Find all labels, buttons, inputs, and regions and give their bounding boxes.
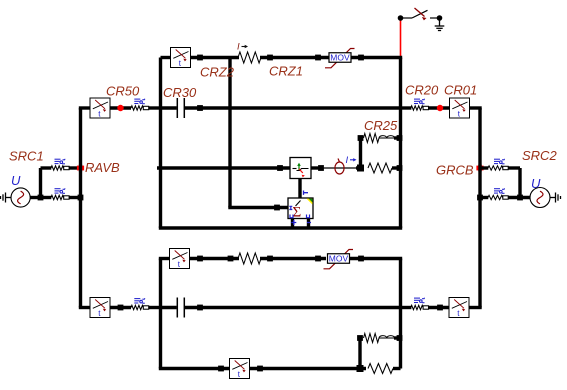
wire: lower capacitor to lower-right bus xyxy=(185,306,401,309)
wire: MOV2 to lower-right bus corner xyxy=(350,257,403,260)
node after lower capacitor xyxy=(197,305,203,311)
breaker CR50 xyxy=(90,98,110,119)
lower RAVB series RLC xyxy=(55,188,66,193)
blue current label I at probe xyxy=(346,155,357,166)
svg-text:U: U xyxy=(11,173,21,188)
node after MOV xyxy=(358,55,364,61)
svg-text:MOV: MOV xyxy=(329,254,349,264)
svg-text:I: I xyxy=(237,42,240,53)
breaker B6 (lower left) xyxy=(90,298,110,319)
wire: bus1 corner to CR50 xyxy=(79,106,91,109)
AC source SRC2 xyxy=(530,188,550,208)
svg-text:CRZ1: CRZ1 xyxy=(269,64,303,79)
node at bus1 lower xyxy=(78,195,84,201)
breaker B8 (bottom) xyxy=(230,359,250,380)
wire: MOV to right bus corner xyxy=(351,56,402,59)
breaker CRZ2 xyxy=(171,48,191,69)
wire: summer bottom rail xyxy=(159,226,402,229)
wire: SRC2 link down xyxy=(518,168,521,198)
svg-text:CRZ2: CRZ2 xyxy=(200,65,235,80)
wire: bottom rail left part xyxy=(159,367,230,370)
lower capacitor left wire xyxy=(161,306,177,309)
breaker B7 (lower right) xyxy=(449,298,469,319)
svg-text:CR25: CR25 xyxy=(364,118,398,133)
node CR25 top right xyxy=(397,135,403,141)
vertical link of CR25 xyxy=(359,138,362,168)
wire: CR01 to right bus corner xyxy=(470,106,482,109)
lower capacitor xyxy=(177,298,184,318)
red node before CR01 xyxy=(437,105,443,111)
svg-text:I: I xyxy=(346,155,349,166)
wire: lower bus2 corner to breaker B5 xyxy=(159,257,170,260)
red node GRCB xyxy=(476,166,483,171)
MOV arrester (top) xyxy=(325,49,355,68)
node after CRZ1 xyxy=(267,55,273,61)
bottom pair top resistor xyxy=(364,334,380,343)
svg-text:SRC2: SRC2 xyxy=(522,148,557,163)
node after B5 xyxy=(197,256,203,262)
blue minus under summer xyxy=(307,222,311,224)
wire: upper-mid bus below CRZ2 xyxy=(159,58,162,229)
thin wire to current probe xyxy=(323,167,357,169)
svg-text:RAVB: RAVB xyxy=(85,160,120,175)
node after CRZ2 xyxy=(197,55,203,61)
bottom pair top inductor xyxy=(379,336,395,338)
summer bottom pins xyxy=(291,219,294,229)
node before MOV xyxy=(315,55,321,61)
svg-text:CR01: CR01 xyxy=(444,83,477,98)
upper SRC2 series RLC xyxy=(494,159,505,164)
wire: B8 to bottom pair xyxy=(250,367,367,370)
node before B7 xyxy=(437,305,443,311)
wire: CRZ1 to MOV xyxy=(260,56,329,59)
lower resistor (CRZ1 mirror) xyxy=(238,253,261,264)
capacitor CR30 xyxy=(177,98,184,118)
wire: coupling box down to summer xyxy=(298,179,301,199)
blue plus under summer xyxy=(291,220,296,225)
node bottom pair top left xyxy=(357,335,363,341)
current probe (eye) xyxy=(335,159,344,175)
node at SRC2 link bottom xyxy=(517,195,523,201)
blue tick at summer top pin xyxy=(304,191,309,195)
wire: CRZ2 to CRZ1 resistor xyxy=(191,56,240,59)
wire: CR50 to RAVB-side resistor xyxy=(110,106,131,109)
lower SRC2 series RLC xyxy=(494,188,505,193)
node after CR30 xyxy=(197,105,203,111)
wire: B6 to lower RLC xyxy=(110,306,131,309)
node at bottom pair left xyxy=(357,365,364,372)
node at bus5 lower xyxy=(477,195,483,201)
svg-text:CR50: CR50 xyxy=(106,84,140,99)
ground at switch xyxy=(435,20,445,31)
stub into CR25 node xyxy=(356,166,363,169)
node after MOV2 xyxy=(358,256,364,262)
red node after CR50 xyxy=(117,105,123,111)
wire: bus1 corner to lower breaker B6 xyxy=(79,306,91,309)
node at SRC1 tee xyxy=(38,195,44,201)
wire: B5 to lower resistor xyxy=(190,257,240,260)
AC source SRC1 xyxy=(11,188,30,207)
lower-left series RLC xyxy=(134,298,145,303)
node after lower resistor xyxy=(267,256,273,262)
node CR25 top left xyxy=(358,135,364,141)
node right of coupling box xyxy=(318,165,324,171)
node CR25 bottom right xyxy=(397,165,403,171)
svg-text:CR20: CR20 xyxy=(405,83,439,98)
wire: bus2 to TACS coupling box xyxy=(157,166,291,169)
wire: lower resistor to MOV2 xyxy=(260,257,326,260)
series RLC branch CR20 xyxy=(414,99,425,104)
stub right of coupling box xyxy=(311,166,324,169)
svg-text:SRC1: SRC1 xyxy=(9,148,44,163)
TACS summer U4 xyxy=(288,198,313,221)
svg-text:CR30: CR30 xyxy=(163,85,197,100)
current label I at CRZ1 xyxy=(237,42,248,53)
switch S1 (open, top) xyxy=(398,8,443,21)
node mid lower row xyxy=(228,256,234,262)
lower-right series RLC xyxy=(414,298,425,303)
wire: bus from CRZ branch to summer input xyxy=(228,58,231,208)
series RLC branch after CR50 xyxy=(134,99,145,104)
CR25 top branch inductor xyxy=(379,136,395,138)
node after B6 xyxy=(118,305,124,311)
wire: bus2 top corner to CRZ2 xyxy=(161,56,171,59)
ground at SRC2 xyxy=(550,193,561,203)
red wire from switch to MOV rail xyxy=(400,18,402,58)
capacitor CR30 left wire xyxy=(161,106,177,109)
CR25 bottom branch resistor xyxy=(368,163,392,173)
wire: SRC1 to tee xyxy=(30,196,44,199)
wire: right source bus (GRCB vertical) xyxy=(478,108,481,308)
bottom pair bottom resistor xyxy=(368,364,393,374)
breaker B5 (lower mid) xyxy=(170,249,190,270)
resistor CRZ1 xyxy=(238,52,261,63)
ground at SRC1 xyxy=(1,193,12,203)
bottom pair vertical link xyxy=(358,338,361,369)
red node RAVB xyxy=(77,166,84,171)
wire: lower-mid bus xyxy=(159,259,162,369)
wire: left source bus (RAVB vertical) xyxy=(79,108,82,308)
node after B8 xyxy=(257,366,263,372)
node before summer xyxy=(274,205,280,211)
node at CR25 bottom left xyxy=(357,165,364,172)
wire: B7 to right bus corner xyxy=(469,306,482,309)
svg-text:Σ: Σ xyxy=(293,205,302,221)
CR25 top branch resistor xyxy=(364,134,380,143)
svg-text:GRCB: GRCB xyxy=(436,163,474,178)
TACS coupling box U3 xyxy=(290,158,311,179)
MOV arrester (lower) xyxy=(324,250,354,269)
wire: CR30 to upper-right bus xyxy=(185,106,401,109)
node before MOV2 xyxy=(315,256,321,262)
node bottom pair top right xyxy=(397,335,403,341)
wire: lower-right bus xyxy=(399,259,402,369)
upper RAVB series RLC xyxy=(55,159,66,164)
node before bottom breaker xyxy=(218,366,224,372)
breaker CR01 xyxy=(450,98,470,119)
wire: upper-right bus xyxy=(399,58,402,229)
wire: bus3 corner to summer xyxy=(228,206,288,209)
wire: tee up to upper RAVB resistor xyxy=(39,168,42,198)
svg-text:MOV: MOV xyxy=(330,53,350,63)
node before coupling box xyxy=(277,165,283,171)
